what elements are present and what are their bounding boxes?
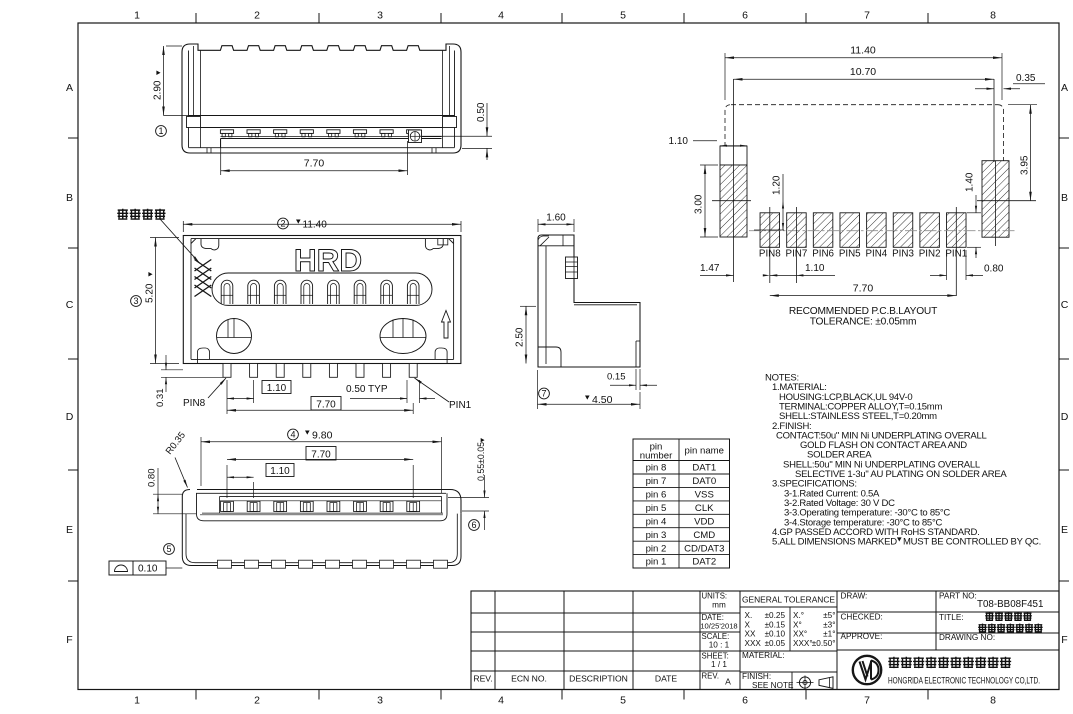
- svg-text:±3°: ±3°: [823, 620, 835, 629]
- svg-text:X°: X°: [793, 620, 802, 629]
- dim 10.70 pcb: [734, 78, 995, 80]
- pcb right pad: [982, 161, 1009, 238]
- svg-text:2.90: 2.90: [153, 80, 164, 100]
- svg-text:10.70: 10.70: [850, 66, 876, 78]
- bottom view insulator plate: [220, 495, 442, 497]
- pin table: [633, 439, 730, 568]
- projection symbols: [799, 677, 810, 688]
- svg-text:pin 5: pin 5: [646, 503, 667, 514]
- svg-text:PART NO:: PART NO:: [939, 592, 977, 601]
- svg-text:3: 3: [377, 695, 383, 707]
- svg-text:VDD: VDD: [694, 516, 714, 527]
- dim 1.10 top view: [226, 380, 228, 403]
- weld circles: [217, 319, 252, 354]
- svg-text:3: 3: [133, 296, 138, 306]
- svg-text:pin 8: pin 8: [646, 463, 667, 474]
- svg-text:B: B: [1061, 192, 1068, 204]
- svg-text:T08-BB08F451: T08-BB08F451: [977, 599, 1043, 610]
- svg-text:XXX: XXX: [745, 639, 762, 648]
- contacts: [221, 280, 233, 304]
- svg-text:±0.05: ±0.05: [765, 639, 786, 648]
- svg-text:CHECKED:: CHECKED:: [841, 613, 883, 622]
- svg-text:CMD: CMD: [693, 530, 715, 541]
- svg-text:6: 6: [471, 520, 476, 530]
- front view inner walls: [188, 51, 190, 148]
- front view contact feet: [220, 130, 233, 134]
- svg-text:mm: mm: [712, 601, 726, 610]
- svg-text:FINISH:: FINISH:: [742, 672, 771, 681]
- svg-text:MATERIAL:: MATERIAL:: [742, 651, 785, 660]
- svg-text:pin 6: pin 6: [646, 490, 667, 501]
- svg-text:ECN NO.: ECN NO.: [511, 674, 547, 684]
- height hatch marks: [195, 260, 212, 272]
- bottom view bar outline: [182, 490, 461, 514]
- dim 3.00 pcb: [700, 164, 718, 166]
- svg-text:±0.10: ±0.10: [765, 630, 786, 639]
- orientation arrow: [442, 311, 451, 339]
- svg-text:±0.50°: ±0.50°: [812, 639, 836, 648]
- svg-text:5: 5: [620, 695, 626, 707]
- svg-text:5.ALL DIMENSIONS MARKED: 5.ALL DIMENSIONS MARKED: [772, 537, 897, 548]
- dim 1.10 pcb left pad: [693, 140, 717, 142]
- dim 1.20 pcb: [754, 229, 784, 231]
- svg-text:SEE NOTE: SEE NOTE: [752, 681, 794, 690]
- svg-text:7: 7: [864, 695, 870, 707]
- svg-text:0.50: 0.50: [476, 102, 487, 122]
- svg-text:4: 4: [290, 430, 295, 440]
- side view protrusion: [566, 257, 578, 279]
- dim 9.80: [200, 437, 202, 486]
- svg-text:DESCRIPTION: DESCRIPTION: [569, 674, 628, 684]
- svg-text:1.10: 1.10: [267, 383, 287, 394]
- side view lower-left box: [538, 347, 561, 367]
- svg-text:DRAW:: DRAW:: [841, 592, 868, 601]
- svg-text:0.15: 0.15: [607, 372, 626, 383]
- front view outline: [182, 44, 461, 153]
- dim 5.20 left: [150, 237, 179, 239]
- svg-text:DATE: DATE: [655, 674, 678, 684]
- svg-text:0.10: 0.10: [138, 564, 158, 575]
- bottom view hook wire: [182, 514, 461, 566]
- dim 2.90 front: [166, 45, 182, 47]
- svg-text:1.10: 1.10: [270, 466, 290, 477]
- svg-text:2.50: 2.50: [515, 327, 526, 347]
- svg-text:XXX°: XXX°: [793, 639, 813, 648]
- svg-text:X.: X.: [745, 611, 753, 620]
- svg-text:pin 3: pin 3: [646, 530, 667, 541]
- pcb dashed shell outline: [731, 104, 998, 106]
- svg-text:1.47: 1.47: [700, 263, 720, 274]
- svg-text:1.40: 1.40: [965, 172, 976, 192]
- svg-text:0.80: 0.80: [984, 264, 1004, 275]
- svg-text:PIN1: PIN1: [945, 249, 967, 260]
- svg-text:D: D: [66, 411, 74, 423]
- svg-text:CD/DAT3: CD/DAT3: [684, 543, 724, 554]
- svg-text:E: E: [66, 524, 73, 536]
- svg-text:±0.25: ±0.25: [765, 611, 786, 620]
- svg-text:F: F: [66, 634, 72, 646]
- svg-text:1: 1: [158, 126, 163, 136]
- svg-text:2: 2: [254, 10, 260, 22]
- svg-text:TOLERANCE: ±0.05mm: TOLERANCE: ±0.05mm: [810, 317, 917, 328]
- svg-text:±0.15: ±0.15: [765, 620, 786, 629]
- svg-text:MUST BE CONTROLLED BY QC.: MUST BE CONTROLLED BY QC.: [903, 537, 1041, 548]
- top view side walls: [190, 239, 192, 360]
- svg-text:6: 6: [742, 695, 748, 707]
- svg-text:0.80: 0.80: [147, 469, 158, 488]
- svg-text:pin 2: pin 2: [646, 543, 667, 554]
- dim 1.60: [537, 219, 539, 232]
- svg-text:10/25'2018: 10/25'2018: [700, 622, 737, 631]
- svg-text:B: B: [66, 192, 73, 204]
- svg-text:3.00: 3.00: [694, 194, 705, 214]
- svg-text:11.40: 11.40: [303, 220, 328, 231]
- svg-text:XX°: XX°: [793, 630, 807, 639]
- svg-text:1.10: 1.10: [805, 263, 825, 274]
- svg-text:CLK: CLK: [695, 503, 714, 514]
- svg-text:TITLE:: TITLE:: [939, 613, 964, 622]
- svg-text:2: 2: [254, 695, 260, 707]
- svg-text:1.20: 1.20: [772, 175, 783, 195]
- bottom wire notch tabs: [218, 560, 232, 568]
- svg-text:REV.: REV.: [702, 672, 719, 681]
- svg-text:8: 8: [990, 10, 996, 22]
- side view step lines: [574, 304, 637, 306]
- svg-text:pin 4: pin 4: [646, 516, 667, 527]
- height label (CJK): [117, 209, 128, 220]
- svg-text:pin 7: pin 7: [646, 476, 667, 487]
- svg-text:7.70: 7.70: [311, 450, 331, 461]
- pcb centreline: [749, 230, 1016, 232]
- svg-text:±1°: ±1°: [823, 630, 835, 639]
- svg-text:E: E: [1061, 524, 1068, 536]
- front view shield tab: [409, 130, 422, 143]
- svg-text:REV.: REV.: [473, 674, 492, 684]
- top view top band: [191, 238, 454, 240]
- dim 2.50: [520, 305, 536, 307]
- svg-text:HONGRIDA ELECTRONIC TECHNOLOGY: HONGRIDA ELECTRONIC TECHNOLOGY CO,LTD.: [888, 676, 1040, 686]
- svg-text:pin 1: pin 1: [646, 557, 667, 568]
- svg-text:4: 4: [498, 10, 504, 22]
- svg-text:DAT2: DAT2: [692, 557, 716, 568]
- dim 1.10 pcb pitch: [770, 274, 797, 276]
- svg-text:PIN7: PIN7: [786, 249, 808, 260]
- front view horizontal band: [189, 115, 455, 117]
- svg-text:number: number: [640, 451, 673, 462]
- svg-text:4: 4: [498, 695, 504, 707]
- svg-text:0.35: 0.35: [1016, 73, 1036, 84]
- svg-text:5: 5: [620, 10, 626, 22]
- company logo: [853, 656, 881, 684]
- svg-text:PIN3: PIN3: [892, 249, 914, 260]
- pcb left pad: [720, 146, 747, 165]
- svg-text:1: 1: [134, 10, 140, 22]
- svg-text:DRAWING NO:: DRAWING NO:: [939, 633, 995, 642]
- dim 7.70 pcb: [770, 295, 957, 297]
- dim 0.50 front: [420, 135, 492, 137]
- top view bottom band: [191, 358, 454, 360]
- svg-text:1: 1: [134, 695, 140, 707]
- svg-text:4.50: 4.50: [592, 394, 613, 406]
- dim 0.15: [635, 369, 637, 390]
- svg-text:7.70: 7.70: [304, 158, 325, 170]
- top view outline: [183, 236, 461, 364]
- svg-text:RECOMMENDED P.C.B.LAYOUT: RECOMMENDED P.C.B.LAYOUT: [789, 306, 937, 317]
- svg-text:PIN2: PIN2: [919, 249, 941, 260]
- dim 0.50 TYP: [406, 380, 408, 403]
- svg-text:X: X: [745, 620, 751, 629]
- svg-text:A: A: [725, 677, 731, 687]
- side view top band: [538, 245, 574, 247]
- svg-text:±5°: ±5°: [823, 611, 835, 620]
- svg-text:APPROVE:: APPROVE:: [841, 632, 883, 641]
- height label leader: [160, 219, 200, 263]
- dim 1.10 bottom view: [253, 482, 255, 498]
- balloon 1: [156, 126, 167, 137]
- contact window stadium: [212, 273, 432, 305]
- dim 0.35 pcb: [975, 88, 994, 90]
- balloon 5: [164, 544, 175, 555]
- svg-text:0.50 TYP: 0.50 TYP: [346, 384, 388, 395]
- svg-text:F: F: [1061, 634, 1067, 646]
- dim 0.80 left: [153, 493, 182, 495]
- side view outline: [538, 235, 640, 367]
- svg-text:DAT0: DAT0: [692, 476, 716, 487]
- svg-text:7: 7: [864, 10, 870, 22]
- svg-text:PIN8: PIN8: [183, 398, 206, 409]
- svg-text:1.10: 1.10: [669, 136, 689, 147]
- svg-text:UNITS:: UNITS:: [702, 592, 728, 601]
- bottom view feet: [221, 501, 234, 511]
- svg-text:pin name: pin name: [685, 446, 724, 457]
- dim 11.40 pcb: [724, 53, 726, 100]
- svg-text:6: 6: [742, 10, 748, 22]
- svg-text:PIN4: PIN4: [865, 249, 887, 260]
- svg-text:5.20: 5.20: [145, 283, 156, 303]
- R0.35 leader: [175, 458, 188, 488]
- svg-text:PIN6: PIN6: [812, 249, 834, 260]
- svg-text:DAT1: DAT1: [692, 463, 716, 474]
- svg-text:PIN8: PIN8: [759, 249, 781, 260]
- svg-text:1 / 1: 1 / 1: [711, 660, 727, 669]
- svg-text:C: C: [1061, 299, 1069, 311]
- svg-text:3: 3: [377, 10, 383, 22]
- svg-text:8: 8: [990, 695, 996, 707]
- balloon 7: [539, 388, 550, 399]
- top view bottom legs: [223, 364, 231, 378]
- svg-text:A: A: [66, 82, 73, 94]
- dim 7.70 front: [220, 139, 222, 176]
- dim 1.40 pcb: [967, 212, 981, 214]
- svg-text:10 : 1: 10 : 1: [709, 641, 730, 650]
- svg-text:XX: XX: [745, 630, 756, 639]
- dim 4.50: [537, 370, 539, 409]
- svg-text:0.31: 0.31: [155, 389, 166, 408]
- pcb pad extension lines: [769, 207, 771, 283]
- svg-text:2: 2: [280, 219, 285, 229]
- svg-text:5: 5: [166, 544, 171, 554]
- svg-text:9.80: 9.80: [312, 430, 333, 442]
- svg-text:0.55±0.05: 0.55±0.05: [476, 442, 486, 481]
- svg-text:1.60: 1.60: [546, 213, 566, 224]
- svg-text:PIN5: PIN5: [839, 249, 861, 260]
- dim 3.95 pcb: [1008, 104, 1037, 106]
- company CJK name: [888, 657, 899, 668]
- svg-text:VSS: VSS: [695, 490, 714, 501]
- svg-text:PIN1: PIN1: [449, 400, 472, 411]
- svg-text:GENERAL TOLERANCE: GENERAL TOLERANCE: [742, 595, 835, 605]
- side view inner wall: [545, 246, 547, 364]
- dim 0.31: [161, 369, 183, 371]
- svg-text:C: C: [66, 299, 74, 311]
- svg-text:3.95: 3.95: [1020, 155, 1031, 175]
- dim 7.70 top view: [226, 403, 228, 414]
- svg-text:7: 7: [541, 389, 546, 399]
- dim 0.55 right: [448, 497, 489, 499]
- svg-text:A: A: [1061, 82, 1068, 94]
- svg-text:7.70: 7.70: [853, 283, 874, 295]
- title block grid: [471, 591, 1059, 690]
- svg-text:7.70: 7.70: [316, 400, 336, 411]
- balloon 6: [469, 520, 480, 531]
- svg-text:X.°: X.°: [793, 611, 804, 620]
- svg-text:D: D: [1061, 411, 1069, 423]
- dim 7.70 bottom view: [226, 465, 228, 498]
- flatness frame: [109, 561, 166, 575]
- dim 1.47 pcb: [700, 274, 734, 276]
- dim 0.80 pcb: [946, 250, 948, 280]
- svg-text:11.40: 11.40: [850, 45, 876, 57]
- front view bottom plate: [221, 138, 442, 140]
- pcb small pads: [760, 213, 780, 248]
- dim 11.40 top: [182, 221, 184, 232]
